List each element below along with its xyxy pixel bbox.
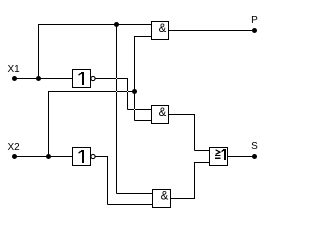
svg-text:P: P [251, 15, 258, 26]
svg-text:S: S [251, 141, 258, 152]
svg-text:&: & [159, 23, 167, 35]
svg-text:&: & [159, 107, 167, 119]
svg-text:X2: X2 [8, 142, 21, 153]
svg-text:X1: X1 [8, 64, 21, 75]
svg-text:&: & [161, 191, 169, 203]
